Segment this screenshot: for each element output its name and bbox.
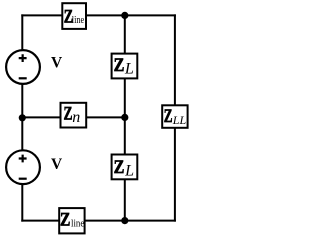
- svg-text:n: n: [72, 109, 80, 126]
- svg-text:Z: Z: [164, 106, 173, 127]
- wire right rail vertical: [174, 14, 176, 221]
- impedance Z_L top box: [112, 54, 138, 79]
- voltage source V2: [6, 150, 40, 184]
- svg-text:L: L: [124, 60, 134, 77]
- label Z_LL: [164, 106, 187, 127]
- V2 minus sign: [19, 178, 27, 180]
- node dot left middle junction: [19, 114, 26, 121]
- impedance Z_line top box: [62, 3, 86, 29]
- svg-text:V: V: [51, 55, 63, 72]
- wire middle rail vertical: [124, 15, 126, 220]
- wire bottom horizontal: [21, 220, 176, 222]
- svg-text:line: line: [72, 14, 84, 26]
- svg-text:LL: LL: [172, 113, 187, 127]
- svg-text:Z: Z: [114, 55, 125, 76]
- label Z_line top: [64, 6, 85, 27]
- V1 minus sign: [19, 77, 27, 79]
- wire middle horizontal (neutral): [22, 116, 125, 118]
- label Z_line bottom: [60, 209, 84, 230]
- label Z_n: [64, 104, 81, 126]
- V2 plus sign: [19, 155, 27, 163]
- impedance Z_n box: [61, 103, 87, 128]
- svg-text:Z: Z: [64, 104, 73, 125]
- V1 plus sign: [19, 54, 27, 62]
- impedance Z_L bottom box: [112, 155, 138, 180]
- wire left rail vertical: [21, 14, 23, 221]
- node dot middle junction: [121, 114, 128, 121]
- impedance Z_line bottom box: [59, 208, 84, 233]
- svg-text:L: L: [124, 163, 134, 180]
- svg-text:line: line: [71, 217, 84, 229]
- svg-text:Z: Z: [60, 209, 70, 230]
- node dot top junction: [121, 12, 128, 19]
- svg-text:Z: Z: [114, 157, 125, 178]
- node dot bottom junction: [121, 217, 128, 224]
- svg-text:V: V: [51, 156, 63, 173]
- wire top horizontal: [21, 14, 176, 16]
- label Z_L bottom: [114, 157, 135, 180]
- label Z_L top: [114, 55, 134, 77]
- impedance Z_LL box: [162, 105, 187, 128]
- voltage source V1: [6, 50, 40, 84]
